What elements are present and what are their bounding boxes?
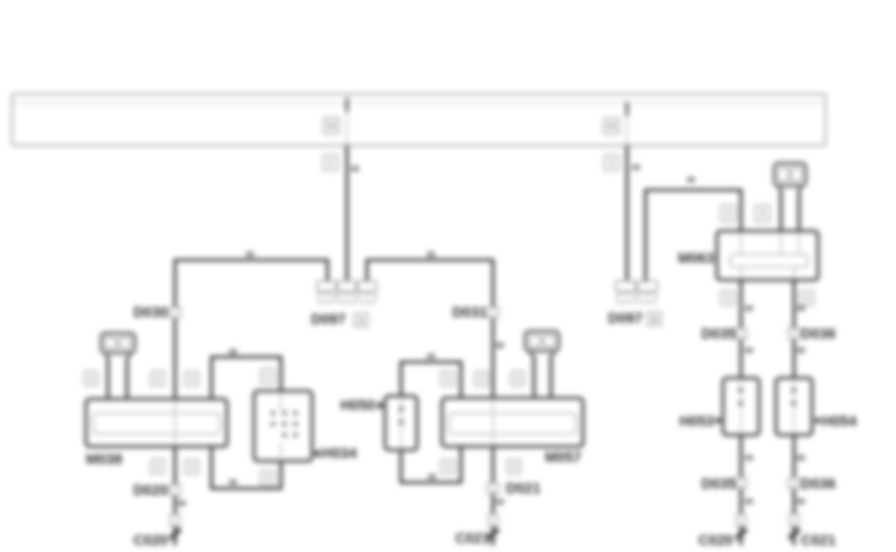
wire code tick above H054 bbox=[797, 348, 805, 354]
pin label M057 bottom left bbox=[441, 460, 454, 474]
svg-text:M038: M038 bbox=[86, 452, 122, 468]
wire code tick below H054 bbox=[797, 455, 805, 461]
connector end C020 mid bbox=[170, 514, 181, 539]
label C021 mid bbox=[455, 531, 490, 547]
pin label M038 bottom right bbox=[185, 460, 198, 474]
wire bus to connector D097 center bbox=[345, 146, 348, 283]
pin label icon pin M038 bbox=[85, 372, 98, 386]
node D035 lower bbox=[736, 478, 747, 489]
wire code tick below D020 bbox=[178, 501, 186, 507]
wire code tick below M063 left bbox=[745, 306, 753, 312]
resistor H050 bbox=[385, 396, 417, 450]
pin label M057 bottom right bbox=[508, 460, 521, 474]
label M063 bbox=[678, 251, 714, 267]
connector end C021 mid bbox=[488, 514, 499, 539]
plug icon pins to M063 bbox=[781, 190, 799, 231]
svg-text:C020: C020 bbox=[698, 533, 733, 549]
pin label below bus right tap bbox=[605, 155, 619, 170]
plug icon on M063 bbox=[774, 163, 806, 192]
wire code tick right tap bbox=[632, 165, 640, 171]
svg-text:D021: D021 bbox=[506, 481, 541, 497]
label D020 bbox=[133, 483, 168, 499]
wire code tick H034 bottom wire bbox=[229, 480, 237, 486]
pin label M063 bottom right bbox=[801, 291, 814, 305]
svg-text:H050: H050 bbox=[340, 398, 375, 414]
wire H053 to C020 bbox=[739, 435, 742, 546]
wire H034 to M038 bottom bbox=[212, 447, 282, 489]
svg-text:D036: D036 bbox=[801, 477, 836, 493]
wire code tick above H053 bbox=[745, 348, 753, 354]
svg-text:C020: C020 bbox=[133, 533, 168, 549]
label D030 bbox=[133, 305, 168, 321]
node D020 bbox=[170, 485, 181, 496]
svg-text:M063: M063 bbox=[678, 251, 714, 267]
svg-text:D031: D031 bbox=[452, 305, 487, 321]
svg-text:D035: D035 bbox=[701, 477, 736, 493]
plug icon pins to M057 bbox=[534, 355, 551, 398]
label H053 bbox=[679, 414, 722, 430]
label C020 mid bbox=[133, 533, 168, 549]
pin label M063 bottom left bbox=[721, 291, 734, 305]
svg-text:D097: D097 bbox=[311, 312, 346, 328]
label D035 upper bbox=[701, 327, 736, 343]
svg-text:D036: D036 bbox=[801, 327, 836, 343]
label M057 bbox=[545, 450, 581, 466]
wire code tick right branch vertical bbox=[496, 343, 504, 349]
wire code tick H034 top wire bbox=[229, 349, 237, 355]
pin label M057 supply pin bbox=[475, 372, 488, 386]
wire M063 to H053 bbox=[739, 280, 742, 378]
node D031 bbox=[488, 307, 499, 318]
pin label below bus left tap bbox=[324, 155, 338, 170]
svg-text:D020: D020 bbox=[133, 483, 168, 499]
wire D097 right to M063 bbox=[646, 190, 742, 281]
wire bus to connector D097 right bbox=[625, 146, 628, 282]
wire code tick right branch bbox=[427, 252, 435, 258]
plug icon on M057 bbox=[525, 331, 559, 357]
label D031 bbox=[452, 305, 487, 321]
wire M057 to H050 top bbox=[401, 362, 461, 398]
plug icon pins to M038 bbox=[108, 357, 127, 399]
node D030 bbox=[170, 307, 181, 318]
wire M057 to C021 bbox=[491, 447, 494, 546]
resistor H054 bbox=[776, 378, 812, 435]
svg-text:B: B bbox=[651, 315, 657, 325]
svg-text:A: A bbox=[358, 316, 364, 326]
bus tap node right bbox=[626, 102, 629, 144]
bus tap node left bbox=[346, 98, 349, 144]
wire M038 to H034 top bbox=[212, 357, 282, 399]
label H054 bbox=[814, 414, 857, 430]
pin label M038 bottom left bbox=[151, 460, 164, 474]
label H050 bbox=[340, 398, 384, 414]
label C021 right bbox=[801, 533, 836, 549]
motor unit M057 bbox=[442, 398, 583, 447]
label D036 lower bbox=[801, 477, 836, 493]
node D035 upper bbox=[736, 328, 747, 339]
svg-text:H053: H053 bbox=[679, 414, 714, 430]
pin label M063 top right bbox=[756, 206, 770, 222]
wire H050 to M057 bottom bbox=[401, 447, 461, 483]
svg-text:C021: C021 bbox=[455, 531, 490, 547]
node D036 lower bbox=[789, 478, 800, 489]
wire M038 to C020 bbox=[173, 447, 176, 546]
svg-text:H054: H054 bbox=[822, 414, 857, 430]
label M038 bbox=[86, 452, 122, 468]
wire code tick above C021 right bbox=[797, 499, 805, 505]
wire code tick below H053 bbox=[745, 455, 753, 461]
pin label M063 top left bbox=[721, 206, 735, 222]
pin label M038 supply pin bbox=[151, 372, 164, 386]
label D036 upper bbox=[801, 327, 836, 343]
node D021 bbox=[488, 483, 499, 494]
label D097 center bbox=[311, 312, 368, 328]
label H034 bbox=[313, 446, 357, 462]
wire D097 to left branch bbox=[175, 260, 328, 399]
pin label in bus right bbox=[604, 118, 619, 134]
wire code tick M063 feed wire bbox=[687, 177, 695, 183]
svg-text:D030: D030 bbox=[133, 305, 168, 321]
pin label M038 loop pin bbox=[185, 372, 198, 386]
svg-text:D035: D035 bbox=[701, 327, 736, 343]
label D035 lower bbox=[701, 477, 736, 493]
wire code tick H050 top wire bbox=[427, 354, 435, 360]
wire code tick above C020 right bbox=[745, 499, 753, 505]
connector end C020 right bbox=[736, 514, 747, 539]
connector end C021 right bbox=[789, 514, 800, 539]
motor unit M038 bbox=[86, 399, 227, 447]
label D021 bbox=[506, 481, 541, 497]
label C020 right bbox=[698, 533, 733, 549]
wire H054 to C021 bbox=[792, 435, 795, 546]
svg-text:H034: H034 bbox=[322, 446, 357, 462]
wire code tick H050 bottom wire bbox=[428, 474, 436, 480]
label D097 right bbox=[608, 311, 661, 327]
junction bus bar bbox=[12, 94, 826, 146]
wire code tick below M063 right bbox=[797, 306, 805, 312]
wire code tick below D021 bbox=[496, 499, 504, 505]
resistor H053 bbox=[723, 378, 759, 435]
pin label icon pin M057 bbox=[511, 372, 524, 386]
node D036 upper bbox=[789, 328, 800, 339]
wire M063 to H054 bbox=[792, 280, 795, 378]
pin label in bus left bbox=[324, 118, 339, 134]
wire D097 to right branch bbox=[367, 260, 493, 398]
connector D097 center bbox=[317, 281, 376, 303]
relay H034 bbox=[254, 391, 312, 461]
pin label M057 loop pin bbox=[441, 372, 454, 386]
plug icon on M038 bbox=[101, 333, 135, 359]
pin label H034 bottom bbox=[261, 471, 274, 485]
control unit M063 bbox=[717, 231, 818, 280]
wire code tick left branch bbox=[246, 252, 254, 258]
connector D097 right bbox=[616, 281, 658, 303]
wire code tick left tap bbox=[351, 166, 359, 172]
svg-text:D097: D097 bbox=[608, 311, 643, 327]
pin label H034 top bbox=[261, 369, 274, 383]
svg-text:C021: C021 bbox=[801, 533, 836, 549]
svg-text:M057: M057 bbox=[545, 450, 581, 466]
